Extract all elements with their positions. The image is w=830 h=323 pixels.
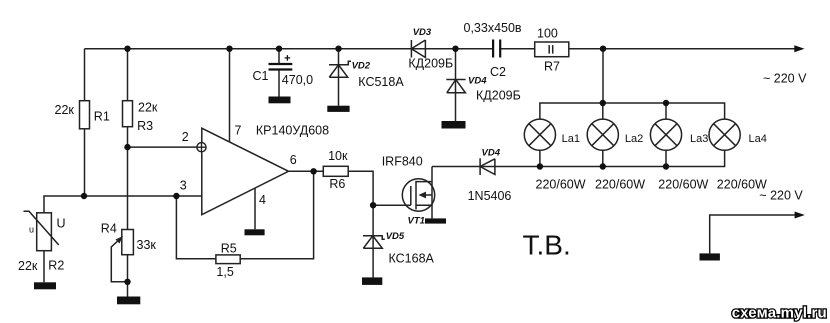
svg-text:КД209Б: КД209Б	[476, 89, 521, 103]
svg-text:10к: 10к	[328, 149, 348, 163]
svg-text:1N5406: 1N5406	[468, 189, 512, 203]
svg-text:3: 3	[180, 179, 187, 193]
svg-text:220/60W: 220/60W	[658, 177, 708, 191]
svg-text:R4: R4	[101, 221, 117, 235]
svg-text:~ 220 V: ~ 220 V	[759, 189, 803, 203]
svg-text:6: 6	[290, 153, 297, 167]
svg-text:La2: La2	[625, 133, 643, 145]
svg-text:22к: 22к	[55, 103, 75, 117]
svg-text:VD4: VD4	[468, 76, 487, 87]
svg-text:La4: La4	[749, 133, 767, 145]
svg-text:220/60W: 220/60W	[536, 177, 586, 191]
svg-text:R1: R1	[94, 110, 110, 124]
svg-text:Т.В.: Т.В.	[523, 230, 571, 261]
svg-text:R6: R6	[329, 177, 345, 191]
svg-text:R7: R7	[544, 60, 560, 74]
svg-text:VD2: VD2	[352, 61, 371, 72]
svg-text:33к: 33к	[137, 238, 157, 252]
svg-text:VT1: VT1	[408, 215, 425, 226]
svg-text:22к: 22к	[18, 259, 38, 273]
svg-text:470,0: 470,0	[282, 73, 313, 87]
svg-text:КС518А: КС518А	[358, 75, 404, 89]
svg-text:0,33х450в: 0,33х450в	[464, 21, 522, 35]
svg-text:R3: R3	[137, 119, 153, 133]
svg-text:220/60W: 220/60W	[595, 177, 645, 191]
svg-text:22к: 22к	[138, 101, 158, 115]
svg-text:U: U	[57, 217, 66, 231]
svg-text:7: 7	[235, 124, 242, 138]
svg-text:КР140УД608: КР140УД608	[256, 124, 329, 138]
svg-text:u: u	[29, 225, 34, 235]
svg-text:КС168А: КС168А	[389, 252, 435, 266]
svg-text:VD3: VD3	[413, 27, 432, 38]
svg-text:R5: R5	[221, 241, 237, 255]
svg-text:La1: La1	[562, 133, 580, 145]
svg-text:4: 4	[259, 193, 266, 207]
svg-text:КД209Б: КД209Б	[408, 57, 453, 71]
svg-text:VD5: VD5	[386, 231, 405, 242]
svg-text:100: 100	[537, 26, 558, 40]
svg-text:La3: La3	[690, 133, 708, 145]
svg-text:C2: C2	[490, 65, 506, 79]
svg-text:схема.myl.ru: схема.myl.ru	[732, 305, 827, 322]
svg-text:1,5: 1,5	[216, 265, 233, 279]
svg-text:~ 220 V: ~ 220 V	[763, 72, 807, 86]
svg-text:VD4: VD4	[482, 147, 501, 158]
svg-text:R2: R2	[48, 259, 64, 273]
svg-text:C1: C1	[253, 69, 269, 83]
svg-text:2: 2	[182, 130, 189, 144]
svg-text:IRF840: IRF840	[382, 154, 423, 168]
